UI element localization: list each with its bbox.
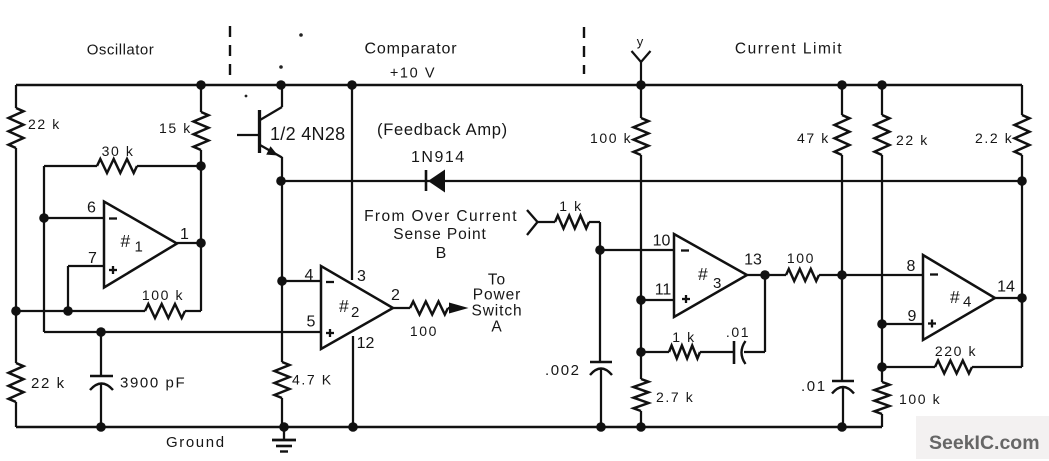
wire op-amp1 pin6 bbox=[44, 217, 104, 219]
svg-text:#: # bbox=[339, 296, 349, 316]
resistor R9 100k top-middle bbox=[640, 85, 642, 118]
junction dot 4.7K ground bbox=[279, 422, 289, 432]
wire op-amp1 pin7 stub bbox=[68, 265, 104, 267]
svg-text:15 k: 15 k bbox=[159, 120, 192, 136]
resistor R2 15k bbox=[200, 85, 202, 112]
wire op-amp1 output bbox=[177, 242, 201, 244]
wire op-amp2 pin12 to ground bbox=[352, 336, 354, 427]
junction dot 220k node bbox=[877, 362, 887, 372]
svg-text:1: 1 bbox=[135, 239, 143, 256]
transistor Q1 1/2 4N28 phototransistor bbox=[281, 85, 283, 107]
resistor R3 30k bbox=[44, 165, 97, 167]
svg-text:#: # bbox=[950, 287, 960, 307]
svg-text:7: 7 bbox=[88, 250, 97, 267]
speck bbox=[279, 65, 283, 69]
wire diode feedback line bbox=[281, 180, 1022, 182]
resistor R10 1k feedback bbox=[641, 351, 669, 353]
wire left rail bbox=[15, 85, 17, 108]
section divider dashed line 2 bbox=[583, 27, 585, 74]
diode D1 1N914 bbox=[425, 170, 428, 191]
wire emitter to pin4 and 4.7K bbox=[281, 181, 283, 362]
input chevron over-current sense bbox=[527, 210, 538, 222]
junction dot 22k rail bbox=[877, 80, 887, 90]
svg-text:4.7 K: 4.7 K bbox=[292, 372, 333, 388]
speck bbox=[299, 33, 303, 37]
wire op-amp4 output bbox=[995, 297, 1022, 299]
resistor R14 22k right bbox=[881, 85, 883, 115]
resistor R1 22k top-left bbox=[9, 108, 24, 148]
svg-text:100 k: 100 k bbox=[899, 391, 941, 407]
wire sense node down to .002 bbox=[599, 250, 601, 362]
resistor R6 4.7K bbox=[275, 362, 290, 398]
junction dot 15k 30k bbox=[196, 161, 206, 171]
svg-text:22 k: 22 k bbox=[28, 116, 61, 132]
resistor R17 220k feedback bbox=[882, 366, 935, 368]
wire op-amp3 output bbox=[747, 274, 786, 276]
junction dot pin3 rail bbox=[347, 80, 357, 90]
junction dot pin9 node bbox=[877, 319, 887, 329]
svg-text:+10 V: +10 V bbox=[390, 66, 436, 82]
ground symbol bbox=[283, 427, 285, 440]
svg-text:100: 100 bbox=[410, 323, 438, 339]
junction dot pin10 node bbox=[595, 245, 605, 255]
resistor R11 100 interstage bbox=[786, 269, 819, 281]
junction dot 47k rail bbox=[837, 80, 847, 90]
capacitor C1 3900pF bbox=[100, 332, 102, 376]
svg-text:6: 6 bbox=[87, 200, 96, 217]
op-amp U3 #3 bbox=[674, 234, 747, 317]
wire feedback left vertical bbox=[43, 166, 45, 332]
svg-text:y: y bbox=[637, 34, 644, 49]
junction dot transistor emitter node bbox=[276, 176, 286, 186]
wire pin10 line bbox=[600, 249, 674, 251]
svg-text:(Feedback Amp): (Feedback Amp) bbox=[377, 121, 508, 139]
resistor R12 2.7k bbox=[634, 379, 649, 411]
capacitor C2 .002 bbox=[590, 361, 612, 364]
wire ground rail bbox=[16, 426, 882, 428]
svg-text:Oscillator: Oscillator bbox=[87, 42, 155, 59]
junction dot y rail bbox=[636, 80, 646, 90]
svg-text:100: 100 bbox=[787, 250, 815, 266]
junction dot pin4 bbox=[277, 276, 287, 286]
junction dot pin12 ground bbox=[348, 422, 358, 432]
resistor R13 47k bbox=[841, 85, 843, 115]
svg-text:12: 12 bbox=[357, 335, 375, 352]
svg-text:#: # bbox=[121, 231, 131, 251]
resistor R7 100 output bbox=[393, 307, 410, 309]
svg-text:Current Limit: Current Limit bbox=[735, 41, 843, 58]
junction dot 47k interstage bbox=[837, 270, 847, 280]
resistor R15 100k right bbox=[875, 382, 890, 414]
junction dot .01 ground bbox=[837, 422, 847, 432]
svg-text:4: 4 bbox=[963, 294, 971, 311]
resistor R4 100k oscillator feedback bbox=[16, 310, 145, 312]
wire pin9 line bbox=[882, 323, 923, 325]
svg-text:1 k: 1 k bbox=[559, 198, 582, 214]
svg-text:30 k: 30 k bbox=[102, 143, 135, 159]
wire op-amp2 pin4 bbox=[282, 280, 321, 282]
svg-text:.002: .002 bbox=[545, 362, 581, 379]
junction dot 3900pF ground bbox=[96, 422, 106, 432]
capacitor C3 .01 feedback bbox=[733, 341, 736, 364]
junction dot output 13 bbox=[760, 270, 770, 280]
wire 15k to feedback node bbox=[200, 150, 202, 311]
resistor R8 1k sense input bbox=[537, 221, 555, 223]
junction dot output 1 bbox=[196, 238, 206, 248]
svg-text:1: 1 bbox=[180, 226, 189, 243]
junction dot rail 15k bbox=[196, 80, 206, 90]
svg-text:1 k: 1 k bbox=[672, 329, 695, 345]
svg-text:22 k: 22 k bbox=[896, 132, 929, 148]
svg-text:3: 3 bbox=[357, 268, 366, 285]
wire pin11 line bbox=[641, 299, 674, 301]
junction dot 2.7k ground bbox=[636, 422, 646, 432]
junction dot 2.2k diode line bbox=[1017, 176, 1027, 186]
arrow to power switch A bbox=[448, 307, 452, 309]
svg-text:3: 3 bbox=[713, 275, 721, 292]
resistor R16 2.2k bbox=[1021, 85, 1023, 115]
wire node to comparator pin5 bbox=[44, 331, 321, 333]
svg-text:Comparator: Comparator bbox=[365, 41, 458, 58]
junction dot .002 ground bbox=[596, 422, 606, 432]
resistor R5 22k bottom-left bbox=[9, 363, 24, 402]
svg-text:2: 2 bbox=[391, 287, 400, 304]
svg-text:47 k: 47 k bbox=[797, 130, 830, 146]
wire op-amp2 supply pin3 bbox=[351, 85, 353, 280]
svg-text:100 k: 100 k bbox=[590, 130, 632, 146]
svg-text:#: # bbox=[698, 264, 708, 284]
svg-text:B: B bbox=[436, 245, 447, 262]
svg-text:.01: .01 bbox=[726, 324, 750, 340]
svg-text:.01: .01 bbox=[801, 378, 827, 395]
svg-text:A: A bbox=[491, 319, 502, 336]
svg-text:2: 2 bbox=[351, 304, 359, 321]
svg-text:14: 14 bbox=[997, 279, 1015, 296]
svg-text:11: 11 bbox=[655, 282, 672, 299]
svg-text:4: 4 bbox=[305, 267, 314, 284]
svg-text:9: 9 bbox=[908, 308, 917, 325]
op-amp U1 #1 bbox=[104, 202, 177, 288]
svg-text:1/2 4N28: 1/2 4N28 bbox=[270, 124, 345, 144]
junction dot 3900pF top bbox=[96, 327, 106, 337]
svg-text:10: 10 bbox=[653, 233, 671, 250]
junction dot transistor collector rail bbox=[276, 80, 286, 90]
svg-text:2.7 k: 2.7 k bbox=[656, 389, 694, 405]
wire feedback riser to pin13 bbox=[764, 275, 766, 352]
op-amp U2 #2 bbox=[321, 266, 393, 349]
svg-text:220 k: 220 k bbox=[935, 343, 977, 359]
svg-text:2.2 k: 2.2 k bbox=[975, 130, 1013, 146]
svg-text:3900 pF: 3900 pF bbox=[120, 375, 186, 392]
svg-text:Ground: Ground bbox=[166, 434, 226, 451]
wire +10V top rail bbox=[16, 84, 1022, 86]
svg-text:8: 8 bbox=[907, 258, 916, 275]
svg-text:22 k: 22 k bbox=[31, 375, 66, 392]
junction dot pin7 stub bbox=[63, 306, 73, 316]
svg-text:From Over Current: From Over Current bbox=[364, 208, 518, 225]
op-amp U4 #4 bbox=[923, 255, 995, 340]
junction dot left rail feedback bbox=[11, 306, 21, 316]
svg-text:Switch: Switch bbox=[471, 303, 522, 320]
wire 100k down bbox=[640, 155, 642, 379]
junction dot feedback 1k node bbox=[636, 347, 646, 357]
svg-text:Sense Point: Sense Point bbox=[393, 226, 487, 243]
watermark background bbox=[916, 416, 1049, 459]
capacitor C4 .01 right bbox=[832, 380, 854, 383]
svg-text:5: 5 bbox=[307, 314, 316, 331]
svg-text:Power: Power bbox=[473, 287, 521, 304]
svg-text:SeekIC.com: SeekIC.com bbox=[929, 432, 1040, 454]
svg-text:13: 13 bbox=[744, 252, 762, 269]
speck bbox=[245, 95, 248, 98]
svg-text:1N914: 1N914 bbox=[411, 149, 466, 166]
junction dot pin11 bbox=[636, 295, 646, 305]
junction dot pin6 bbox=[39, 213, 49, 223]
junction dot output 14 bbox=[1017, 293, 1027, 303]
section divider dashed line 1 bbox=[229, 26, 231, 75]
svg-text:100 k: 100 k bbox=[142, 287, 184, 303]
